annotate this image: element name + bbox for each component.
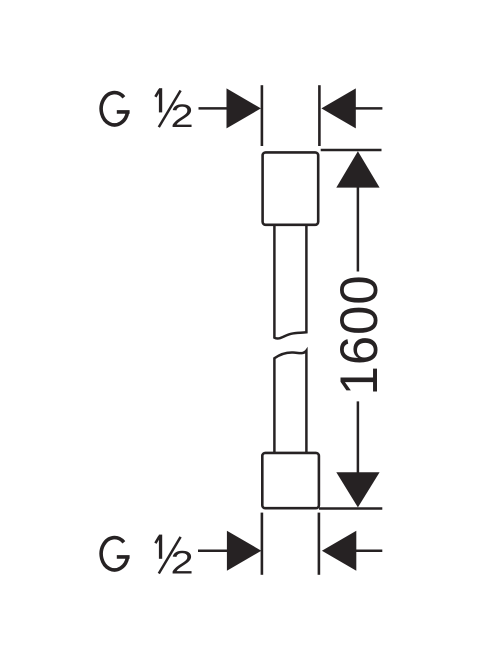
label G (bottom thread) xyxy=(101,538,129,570)
top dimension arrow left xyxy=(227,88,261,128)
1600 dimension upper shaft xyxy=(357,187,360,272)
top extension line right xyxy=(318,85,321,146)
1600 dimension lower shaft xyxy=(357,401,360,473)
bottom dimension arrow left xyxy=(227,531,261,571)
hose upper segment xyxy=(274,225,306,339)
bottom extension line left xyxy=(261,513,264,575)
bottom dimension leader line left xyxy=(198,549,228,552)
top extension line left xyxy=(261,85,264,146)
label 1/2 numerator 1 (bottom) xyxy=(155,535,162,559)
label 1/2 fraction slash (top) xyxy=(159,91,181,128)
bottom dimension leader line right xyxy=(356,549,382,552)
top connector nut xyxy=(263,152,319,224)
top dimension leader line left xyxy=(199,107,228,110)
svg-text:2: 2 xyxy=(171,98,194,134)
bottom dimension arrow right xyxy=(322,531,356,571)
top dimension leader line right xyxy=(356,107,383,110)
label 1/2 numerator 1 (top) xyxy=(155,88,162,112)
top dimension arrow right xyxy=(321,88,355,128)
1600 dimension down arrow xyxy=(336,472,379,507)
1600 dimension top boundary line xyxy=(321,149,382,152)
svg-text:1600: 1600 xyxy=(330,274,389,395)
1600 dimension up arrow xyxy=(336,151,379,187)
bottom extension line right xyxy=(318,513,321,575)
bottom connector nut xyxy=(262,453,319,508)
label 1/2 fraction slash (bottom) xyxy=(159,537,181,574)
hose lower segment xyxy=(274,351,306,453)
label G (top thread) xyxy=(101,93,129,125)
1600 dimension bottom boundary line xyxy=(319,507,382,510)
svg-text:2: 2 xyxy=(171,544,194,580)
